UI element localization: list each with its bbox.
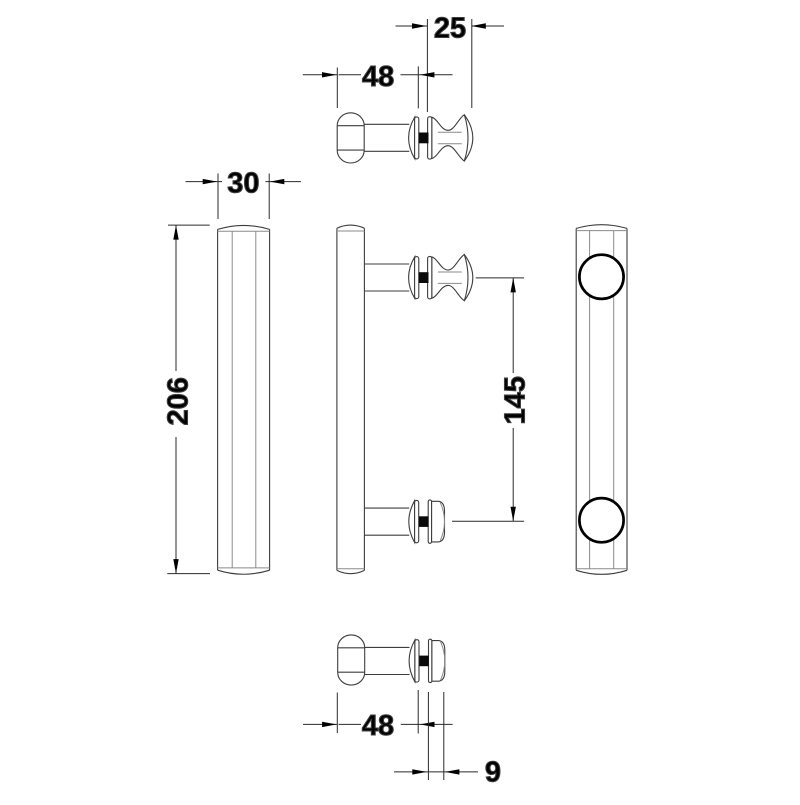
right rail bottom hole circle xyxy=(579,498,623,542)
dimension 48 (bottom) xyxy=(303,690,453,734)
dimension 30 (left) xyxy=(186,174,301,220)
svg-text:48: 48 xyxy=(362,61,394,93)
bottom view dome xyxy=(338,635,365,685)
right rail top hole circle xyxy=(579,255,623,299)
dimension 25 (top) xyxy=(396,19,505,112)
top view hourglass knob xyxy=(364,115,473,161)
top view dome xyxy=(337,113,364,163)
left rail side view xyxy=(218,225,270,574)
dimension 9 (bottom) xyxy=(394,692,478,780)
svg-text:9: 9 xyxy=(485,757,501,789)
middle rail side view xyxy=(337,225,365,574)
svg-text:25: 25 xyxy=(434,12,466,44)
bottom view cap knob xyxy=(365,639,445,682)
middle top hourglass knob xyxy=(364,254,473,300)
middle bottom cap knob xyxy=(364,500,444,543)
svg-text:206: 206 xyxy=(162,377,194,425)
dimension 145 (middle vertical) xyxy=(452,278,524,521)
svg-text:145: 145 xyxy=(499,376,531,424)
right rail front view xyxy=(576,225,627,575)
dimension 48 (top) xyxy=(303,66,453,108)
svg-text:48: 48 xyxy=(362,710,394,742)
svg-text:30: 30 xyxy=(227,167,259,199)
dimension 206 (left vertical) xyxy=(167,225,210,573)
